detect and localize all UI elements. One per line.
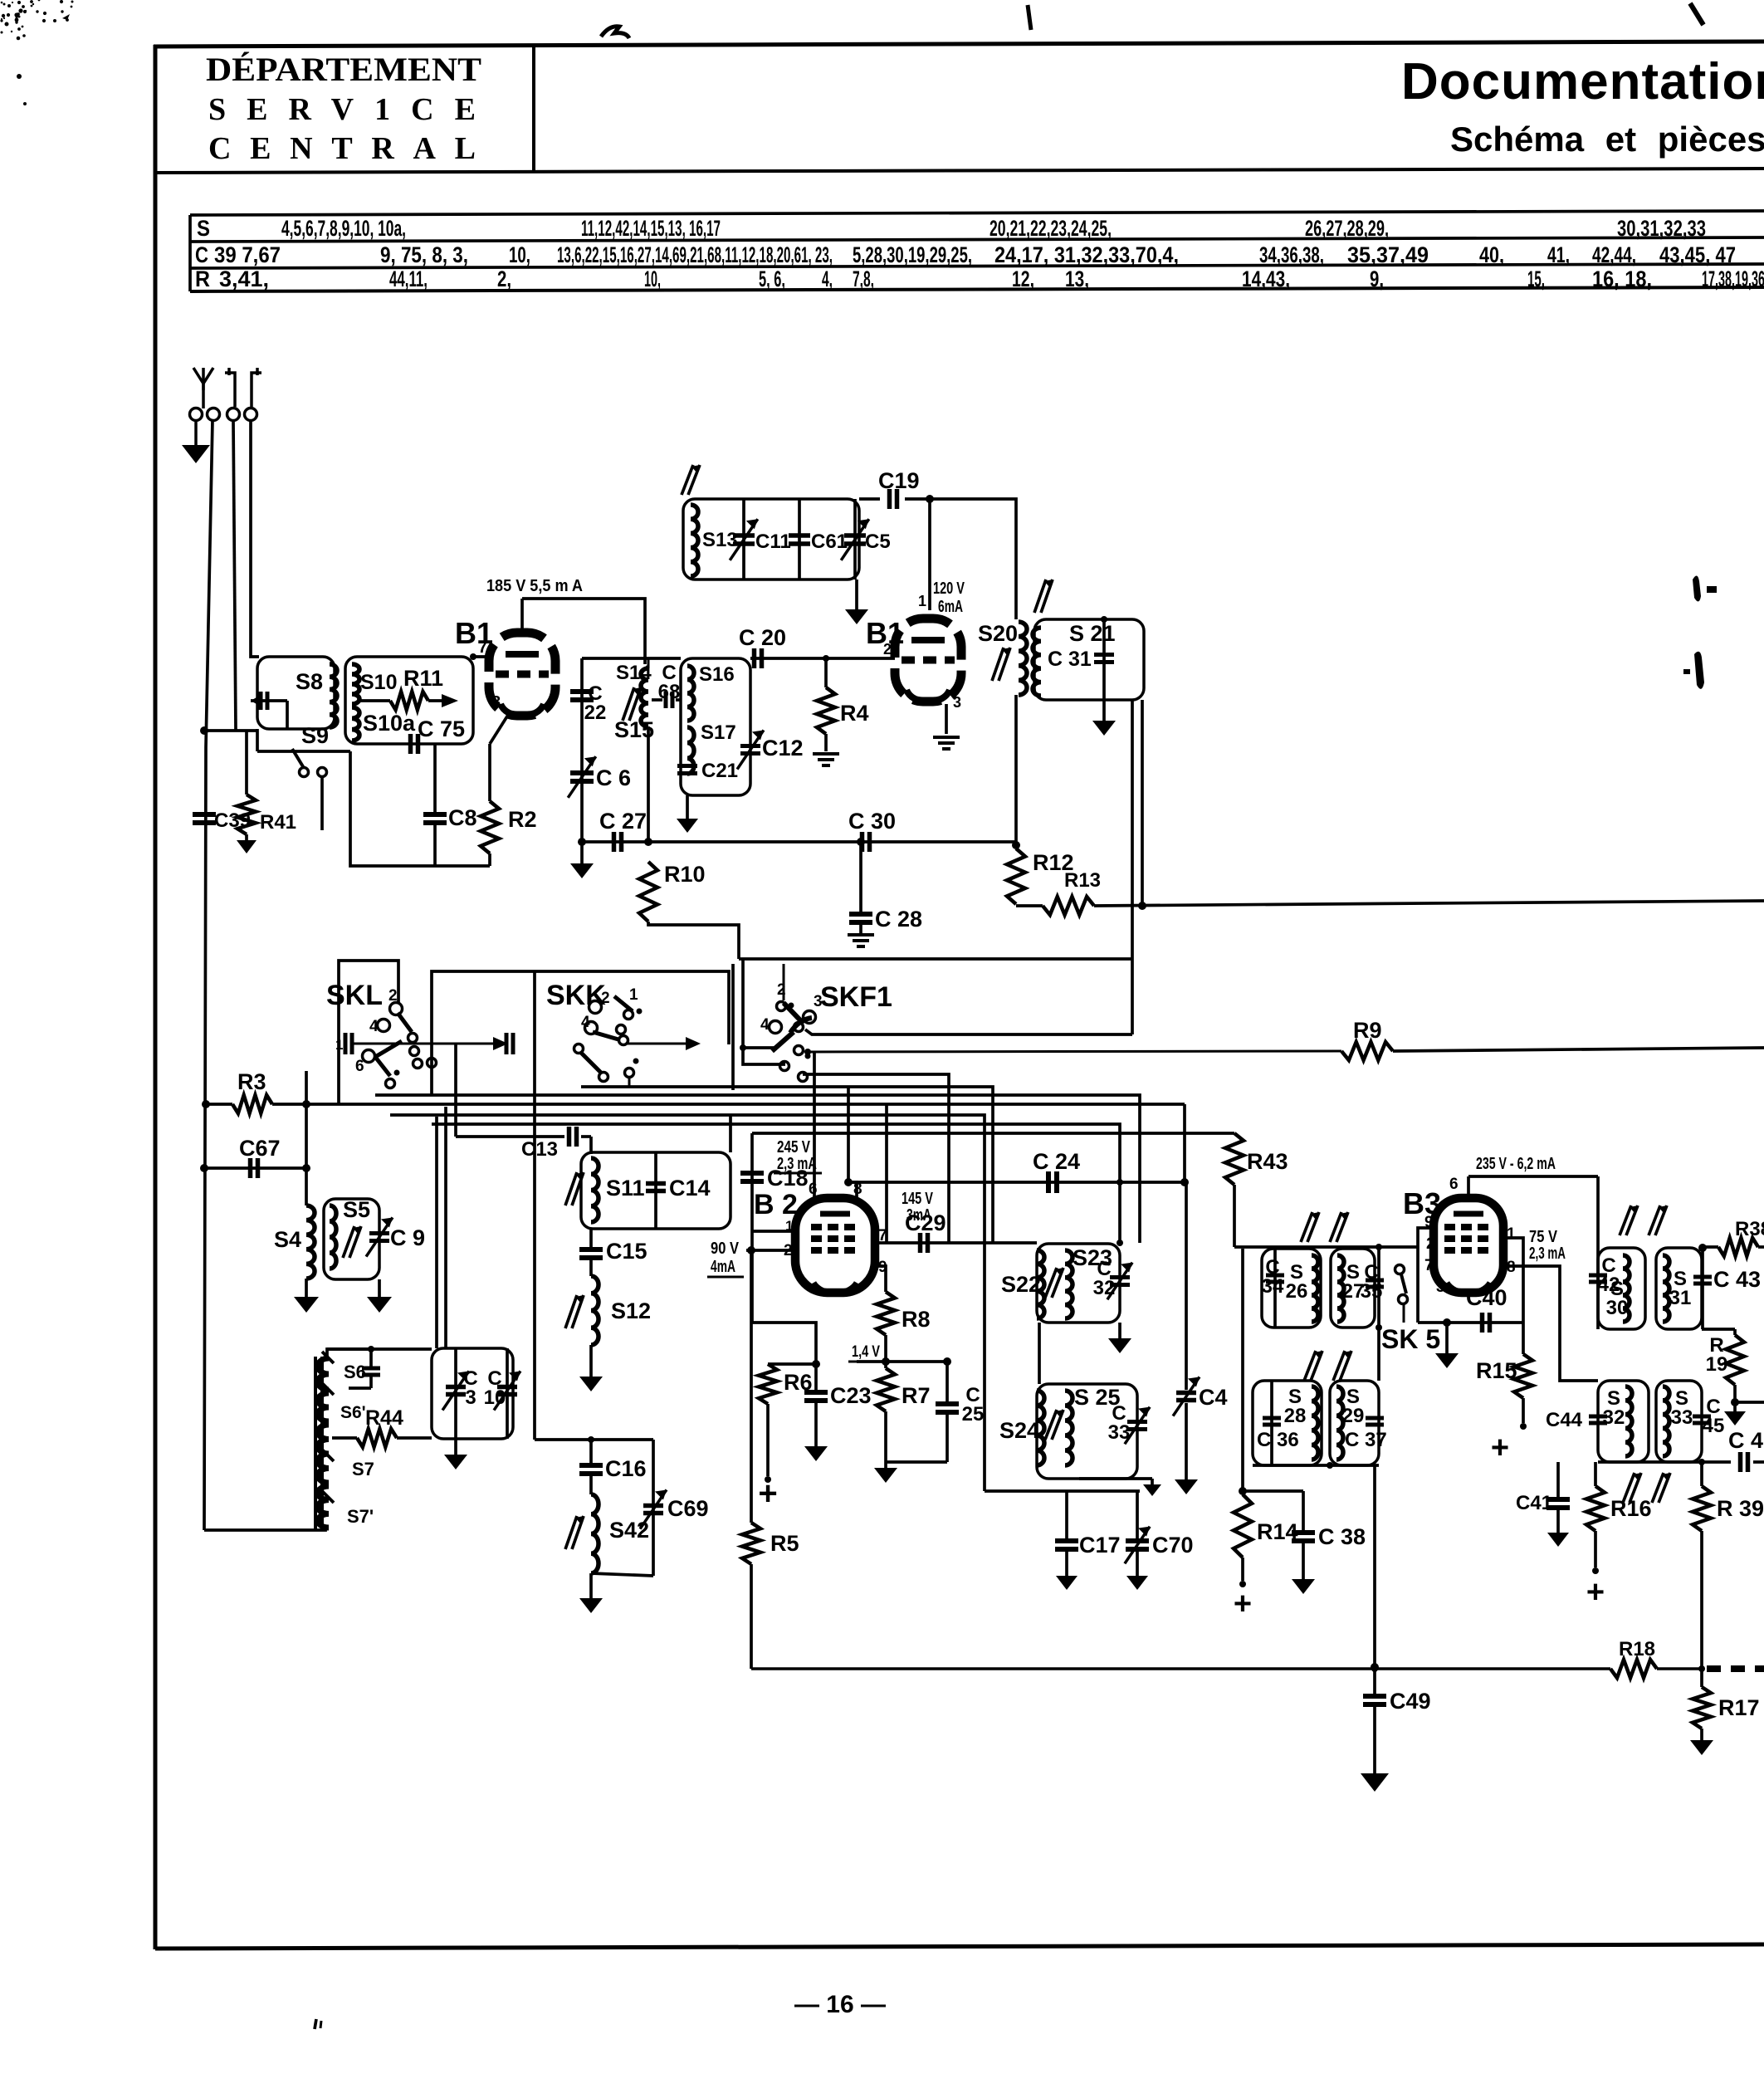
- svg-text:+: +: [1491, 1430, 1509, 1465]
- node line S9 area: [200, 726, 257, 735]
- svg-text:3: 3: [1436, 1279, 1445, 1296]
- svg-text:32: 32: [1093, 1277, 1116, 1299]
- svg-text:R17: R17: [1718, 1695, 1760, 1720]
- coil box S8: [257, 657, 335, 729]
- svg-text:R: R: [195, 267, 210, 291]
- svg-text:R 39: R 39: [1717, 1496, 1764, 1521]
- trimmer pair S28: [1304, 1351, 1351, 1381]
- svg-text:75 V: 75 V: [1529, 1228, 1558, 1246]
- svg-text:C67: C67: [239, 1136, 281, 1161]
- SKF1 lever b: [772, 1032, 804, 1055]
- svg-text:C39: C39: [214, 809, 251, 832]
- svg-text:R41: R41: [260, 811, 296, 834]
- coil S21: [1033, 621, 1116, 696]
- svg-text:3: 3: [814, 993, 823, 1010]
- SKL wiring top: [339, 961, 398, 1104]
- wire B3 pin1: [1503, 1238, 1523, 1323]
- capacitor C44: [1546, 1409, 1614, 1431]
- svg-text:R43: R43: [1247, 1149, 1288, 1174]
- wire R10 bottom: [648, 922, 739, 959]
- SKL contact 6: [355, 1050, 375, 1076]
- wire C19 to S20: [930, 499, 1016, 619]
- label 145V 3mA: [902, 1190, 933, 1225]
- resistor R17: [1690, 1670, 1760, 1755]
- SKF1 contact 3: [790, 993, 823, 1033]
- capacitor C17: [1055, 1491, 1121, 1590]
- svg-text:C 27: C 27: [599, 809, 647, 834]
- table row C: [195, 242, 1736, 267]
- resistor R39: [1693, 1462, 1764, 1667]
- resistor R41: [237, 731, 296, 853]
- variable capacitor C11: [730, 499, 791, 579]
- svg-text:8: 8: [491, 693, 501, 712]
- antenna symbol 2: [225, 368, 261, 407]
- svg-text:R18: R18: [1619, 1638, 1655, 1660]
- svg-text:S42: S42: [609, 1518, 649, 1543]
- trimmer S5: [343, 1226, 361, 1258]
- svg-text:C: C: [195, 242, 208, 267]
- vertical C22 C6 rail: [580, 658, 584, 842]
- svg-text:90 V: 90 V: [711, 1240, 740, 1258]
- capacitor C67: [200, 1136, 310, 1178]
- SKK contact 4: [581, 1014, 598, 1034]
- switch S9: [292, 723, 329, 830]
- wire S42 bottom: [579, 1573, 653, 1613]
- svg-text:R13: R13: [1064, 869, 1101, 892]
- coil box S26 C34: [1262, 1249, 1321, 1328]
- trimmer pair S30: [1620, 1205, 1667, 1235]
- svg-text:29: 29: [1342, 1405, 1365, 1427]
- wire R12 R13 bus: [1016, 869, 1101, 906]
- coil S30: [1606, 1255, 1630, 1322]
- svg-text:C14: C14: [669, 1176, 711, 1201]
- coil S7p: [318, 1486, 374, 1528]
- variable capacitor C9: [366, 1217, 425, 1256]
- svg-text:235 V - 6,2 mA: 235 V - 6,2 mA: [1476, 1155, 1556, 1173]
- SKK wiring top: [432, 971, 729, 1095]
- svg-text:SKF1: SKF1: [820, 981, 892, 1013]
- header underline full-width: [154, 169, 1764, 173]
- svg-text:S10a: S10a: [363, 711, 416, 736]
- C3 box ground: [444, 1439, 467, 1470]
- resistor R7: [877, 1368, 931, 1462]
- coil S16: [687, 663, 735, 721]
- svg-text:9: 9: [1424, 1214, 1434, 1231]
- svg-text:34,36,38,: 34,36,38,: [1259, 242, 1324, 267]
- tube B1 first: [455, 616, 555, 716]
- coil S28: [1284, 1386, 1318, 1460]
- variable capacitor C70: [1125, 1491, 1194, 1590]
- svg-text:26: 26: [1286, 1280, 1308, 1303]
- svg-text:Documentation: Documentation: [1401, 53, 1764, 110]
- wire S42 top: [535, 1436, 653, 1443]
- coil S31: [1663, 1255, 1691, 1322]
- S23 ground: [1108, 1323, 1131, 1353]
- wire bus f: [432, 1124, 1123, 1246]
- svg-text:10,: 10,: [509, 242, 530, 267]
- svg-text:2,3 mA: 2,3 mA: [777, 1155, 817, 1173]
- svg-text:C19: C19: [878, 468, 920, 493]
- svg-text:2: 2: [883, 641, 892, 658]
- trimmer pair S26: [1301, 1212, 1348, 1242]
- antenna terminal 1: [190, 408, 203, 421]
- wire SK5 rail: [1376, 1249, 1382, 1381]
- svg-text:C5: C5: [865, 531, 891, 553]
- antenna terminal 4: [245, 408, 257, 421]
- SKK contact low: [625, 1059, 639, 1088]
- svg-text:12,: 12,: [1012, 267, 1034, 291]
- svg-text:2,: 2,: [497, 267, 511, 291]
- coil box S28 C36: [1253, 1381, 1322, 1465]
- SKF1 inner wiring: [733, 959, 785, 1090]
- switch SKK label: [546, 980, 606, 1011]
- resistor R14: [1234, 1494, 1298, 1587]
- svg-text:185 V 5,5 m A: 185 V 5,5 m A: [486, 577, 583, 595]
- svg-text:3: 3: [953, 694, 961, 711]
- variable capacitor C33: [1108, 1402, 1150, 1444]
- resistor R18: [1610, 1638, 1657, 1678]
- svg-text:R16: R16: [1610, 1496, 1652, 1521]
- subtitle Schema et pieces: [1450, 120, 1764, 159]
- coil S17: [687, 721, 736, 774]
- wire C24 line: [848, 1179, 1186, 1186]
- wire 185V line: [522, 599, 645, 664]
- tube B2: [754, 1189, 875, 1293]
- coil S14: [616, 658, 652, 842]
- svg-text:S24: S24: [999, 1418, 1039, 1443]
- svg-text:C40: C40: [1466, 1285, 1507, 1310]
- svg-text:S 21: S 21: [1069, 621, 1116, 646]
- plus under R14: [1234, 1587, 1252, 1621]
- SKK contacts mid: [617, 1025, 628, 1045]
- variable capacitor C4: [1173, 1182, 1227, 1494]
- capacitor C38 branch: [1243, 1491, 1366, 1594]
- coil box S11 C14: [581, 1152, 731, 1229]
- svg-text:R44: R44: [365, 1406, 403, 1430]
- coil box S33: [1656, 1381, 1702, 1462]
- svg-text:S14: S14: [616, 662, 652, 684]
- variable capacitor C3: [442, 1348, 478, 1439]
- svg-text:S13: S13: [702, 529, 738, 551]
- SKF1 loop top: [739, 957, 1132, 961]
- coil S25: [1065, 1385, 1121, 1465]
- svg-text:9,: 9,: [1370, 267, 1384, 291]
- svg-text:2: 2: [1426, 1235, 1435, 1253]
- svg-text:1,4 V: 1,4 V: [852, 1343, 880, 1361]
- wire terminal4 to S8 box: [251, 420, 259, 657]
- resistor R38: [1703, 1218, 1764, 1256]
- SKL contact 4: [369, 1018, 390, 1035]
- coil box S10: [345, 657, 473, 744]
- coil box S31: [1656, 1248, 1702, 1329]
- trimmer S12: [565, 1295, 584, 1328]
- svg-text:SKK: SKK: [546, 980, 606, 1011]
- coil S27: [1337, 1255, 1364, 1322]
- wire bottom bus: [751, 1665, 1610, 1672]
- svg-text:R11: R11: [403, 666, 443, 691]
- svg-text:2,3 mA: 2,3 mA: [1529, 1245, 1566, 1263]
- plus under R6: [758, 1475, 777, 1512]
- dashed bus to edge: [1707, 1665, 1764, 1672]
- svg-text:Schéma et pièces: Schéma et pièces: [1450, 120, 1764, 159]
- svg-text:C 43: C 43: [1713, 1267, 1761, 1292]
- coil S24: [999, 1391, 1044, 1465]
- wire R43 down: [1233, 1185, 1236, 1247]
- svg-text:22: 22: [584, 702, 607, 724]
- wire C18 rail: [752, 1133, 795, 1231]
- antenna ground arrow: [182, 420, 210, 463]
- svg-text:7,8,: 7,8,: [853, 267, 874, 291]
- wire SKL drop 1: [435, 1117, 438, 1348]
- trimmer S42: [565, 1516, 584, 1549]
- coil box S29 C37: [1330, 1381, 1379, 1465]
- S6 top cap: [327, 1349, 380, 1388]
- wire bus e: [390, 1115, 985, 1491]
- svg-text:19: 19: [1706, 1353, 1728, 1376]
- capacitor C40: [1466, 1285, 1507, 1333]
- resistor R6: [759, 1364, 813, 1483]
- ground below S13 box: [845, 579, 868, 624]
- resistor R44: [332, 1406, 432, 1447]
- page border frame left: [154, 45, 158, 1949]
- S17 ground: [677, 795, 698, 833]
- svg-text:S5: S5: [343, 1197, 370, 1222]
- stray smudge right side b: [1683, 652, 1704, 689]
- resistor R12: [1007, 848, 1074, 904]
- capacitor C30: [848, 809, 896, 852]
- SKL contacts mid: [408, 1034, 423, 1069]
- stray mark below border: [315, 2019, 321, 2029]
- svg-text:7: 7: [1424, 1257, 1434, 1274]
- coil S8: [330, 664, 337, 727]
- SKF1 loop return: [805, 1029, 1132, 1034]
- svg-text:C8: C8: [448, 805, 477, 830]
- svg-text:6: 6: [1449, 1176, 1459, 1193]
- trimmer above S13: [682, 465, 700, 495]
- wire R14 rail: [1239, 1249, 1247, 1495]
- coil box S13: [683, 499, 859, 579]
- resistor R13: [1043, 897, 1764, 915]
- SKK arrow line: [626, 1037, 701, 1050]
- wire bus c: [581, 1087, 993, 1244]
- svg-text:4,: 4,: [822, 267, 833, 291]
- capacitor C42: [1589, 1254, 1620, 1296]
- svg-text:R2: R2: [508, 807, 537, 832]
- table outline: [190, 211, 1764, 291]
- B3 pin numbers: [1424, 1176, 1516, 1296]
- SKL lever a: [398, 1013, 412, 1032]
- capacitor C28 branch: [848, 838, 922, 946]
- svg-text:145 V: 145 V: [902, 1190, 933, 1208]
- wire terminal2 down-left rail: [204, 420, 213, 1530]
- SKL lever b: [375, 1041, 402, 1076]
- stray smudge right side a: [1693, 575, 1717, 601]
- coil box S32: [1598, 1381, 1649, 1462]
- SKF1 contact 4: [760, 1016, 782, 1034]
- svg-text:C 37: C 37: [1345, 1429, 1387, 1451]
- svg-text:C 30: C 30: [848, 809, 896, 834]
- SKL arrow line: [335, 1033, 513, 1054]
- svg-text:S7': S7': [347, 1506, 374, 1527]
- SKK contact 2: [589, 990, 610, 1014]
- svg-text:5,28,30,19,29,25,: 5,28,30,19,29,25,: [853, 242, 972, 267]
- svg-text:C61: C61: [811, 531, 848, 553]
- header divider vertical: [532, 46, 535, 172]
- svg-text:4,5,6,7,8,9,10, 10a,: 4,5,6,7,8,9,10, 10a,: [281, 216, 406, 241]
- svg-text:9, 75, 8, 3,: 9, 75, 8, 3,: [380, 242, 468, 267]
- capacitor C49: [1361, 1689, 1431, 1792]
- svg-text:26,27,28,29,: 26,27,28,29,: [1305, 216, 1389, 241]
- wire B2 pin8: [844, 1087, 857, 1198]
- capacitor C39: [193, 809, 251, 832]
- coil S33: [1663, 1386, 1693, 1456]
- capacitor C35: [1361, 1261, 1384, 1303]
- svg-text:S: S: [197, 216, 210, 241]
- capacitor C34: [1262, 1249, 1284, 1328]
- variable capacitor C12: [737, 730, 803, 769]
- svg-text:SKL: SKL: [326, 980, 383, 1011]
- SKL contact low: [386, 1070, 400, 1088]
- S4 ground: [294, 1279, 319, 1313]
- capacitor C23: [804, 1364, 872, 1461]
- coil box S21: [1034, 619, 1144, 700]
- svg-text:R3: R3: [237, 1069, 266, 1094]
- svg-text:C 47: C 47: [1728, 1428, 1764, 1453]
- svg-text:S9: S9: [301, 723, 329, 748]
- label 245V: [774, 1138, 822, 1173]
- resistor R10: [639, 862, 706, 922]
- SKF1 lever a: [777, 1002, 804, 1024]
- title Documentation: [1401, 53, 1764, 110]
- svg-text:68: 68: [658, 681, 681, 703]
- svg-text:C 75: C 75: [418, 716, 465, 741]
- SKL contact 2: [388, 987, 403, 1015]
- wire R19 out: [1724, 1402, 1764, 1425]
- svg-text:— 16 —: — 16 —: [794, 1991, 886, 2018]
- svg-text:25: 25: [962, 1403, 985, 1425]
- capacitor C20: [739, 625, 786, 668]
- trimmer above S21: [1034, 579, 1053, 613]
- wire cans bottom line: [1598, 1459, 1731, 1465]
- svg-text:C 36: C 36: [1257, 1429, 1299, 1451]
- svg-text:28: 28: [1284, 1405, 1307, 1427]
- svg-text:C16: C16: [605, 1456, 647, 1481]
- coil S29: [1336, 1386, 1364, 1460]
- resistor R3: [202, 1069, 1185, 1113]
- capacitor C16: [579, 1440, 647, 1481]
- label S15: [614, 717, 654, 742]
- switch SKF1 label: [820, 981, 892, 1013]
- svg-text:+: +: [758, 1475, 777, 1512]
- stray mark top middle: [601, 27, 629, 38]
- svg-text:B 2: B 2: [754, 1189, 798, 1220]
- coil S6p: [318, 1383, 366, 1422]
- coil box S22 S23: [1037, 1244, 1120, 1323]
- wire 14V node: [857, 1335, 951, 1368]
- capacitor C27: [599, 809, 647, 852]
- wire C19 junction to B1 pin1: [926, 495, 934, 610]
- svg-text:14,43,: 14,43,: [1242, 267, 1290, 291]
- variable capacitor C32: [1093, 1258, 1132, 1299]
- B1 pin3 earth: [933, 704, 960, 749]
- SKK lever 1: [614, 986, 643, 1020]
- svg-text:R5: R5: [770, 1531, 799, 1556]
- wire R7 C25 bottom: [874, 1462, 947, 1483]
- coil S42: [591, 1476, 649, 1573]
- capacitor C13: [456, 1127, 591, 1161]
- capacitor C41 branch: [1516, 1462, 1570, 1547]
- variable capacitor C69: [640, 1440, 708, 1576]
- wire 90V line: [746, 1246, 795, 1254]
- resistor R8: [877, 1292, 931, 1335]
- coil S12: [591, 1260, 651, 1345]
- pin box B3: [1418, 1228, 1434, 1323]
- label 120V 6mA: [933, 579, 965, 616]
- wire B3 pin8 right: [1503, 1266, 1598, 1381]
- resistor R43: [1225, 1133, 1288, 1185]
- coil S4: [274, 1205, 315, 1279]
- S5 ground: [367, 1279, 392, 1313]
- coil S22: [1001, 1250, 1044, 1318]
- coil box S27 C35: [1331, 1249, 1375, 1328]
- capacitor C75: [411, 716, 466, 754]
- svg-text:245 V: 245 V: [777, 1138, 811, 1157]
- svg-text:R15: R15: [1476, 1358, 1517, 1383]
- svg-text:17,38,19,36: 17,38,19,36: [1702, 267, 1764, 291]
- svg-text:5, 6,: 5, 6,: [759, 267, 785, 291]
- resistor R11: [359, 666, 458, 710]
- svg-text:C4: C4: [1199, 1385, 1228, 1410]
- tube B3: [1403, 1186, 1503, 1293]
- svg-text:S20: S20: [978, 621, 1018, 646]
- resistor R2: [481, 801, 537, 866]
- trimmer S11: [565, 1172, 584, 1205]
- svg-text:B1: B1: [455, 616, 493, 650]
- trimmer S25: [1045, 1410, 1063, 1440]
- wire B2 pin6: [813, 1051, 816, 1198]
- svg-text:44,11,: 44,11,: [389, 267, 428, 291]
- svg-text:41,: 41,: [1547, 242, 1570, 267]
- svg-text:13,6,22,15,16,27,14,69,21,68,1: 13,6,22,15,16,27,14,69,21,68,11,12,18,20…: [557, 242, 833, 267]
- svg-text:C41: C41: [1516, 1492, 1552, 1514]
- wire R19 top: [1702, 1328, 1735, 1331]
- svg-text:C 38: C 38: [1318, 1524, 1366, 1549]
- switch SK5: [1381, 1265, 1440, 1355]
- wire S10 box to B1 pin7: [470, 653, 491, 660]
- switch SKL label: [326, 980, 383, 1011]
- capacitor C15: [579, 1229, 647, 1264]
- svg-text:1: 1: [785, 1218, 793, 1234]
- wire bus b: [803, 1074, 949, 1243]
- resistor R4: [813, 658, 869, 765]
- svg-text:11,12,42,14,15,13, 16,17: 11,12,42,14,15,13, 16,17: [581, 216, 721, 241]
- svg-text:1: 1: [629, 986, 638, 1004]
- svg-text:R38: R38: [1735, 1218, 1764, 1240]
- wire SKL drop 2: [444, 1107, 447, 1348]
- svg-text:1: 1: [1507, 1225, 1516, 1243]
- variable capacitor C10: [484, 1348, 520, 1439]
- header text DEPARTEMENT SERVICE CENTRAL: [206, 51, 481, 166]
- coil box S5: [324, 1199, 379, 1279]
- svg-text:24,17, 31,32,33,70,4,: 24,17, 31,32,33,70,4,: [994, 242, 1179, 267]
- wire C20 line: [582, 657, 681, 660]
- svg-text:C 31: C 31: [1048, 648, 1092, 671]
- coil S32: [1603, 1386, 1632, 1456]
- capacitor C29: [905, 1210, 946, 1253]
- capacitor C25: [936, 1362, 984, 1462]
- svg-text:C 28: C 28: [875, 907, 922, 932]
- antenna symbol 1: [193, 368, 213, 408]
